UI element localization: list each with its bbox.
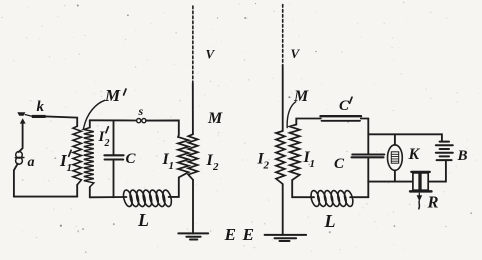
wire primary bottom [14,196,77,198]
svg-text:1: 1 [310,158,316,170]
alternator a [15,152,24,165]
wire receiver right side upper [367,119,369,155]
wire I1 bottom stub (receiver) [291,180,293,197]
detector K [388,145,403,171]
svg-text:M: M [207,110,223,127]
wire antenna down lead (receiver) [282,65,284,131]
wire receiver top right [361,118,369,120]
wire receiver right side lower [367,158,369,197]
svg-text:E: E [242,225,254,244]
wire to earth (receiver) [282,184,284,235]
svg-text:1: 1 [67,162,73,174]
wire I'2 bottom stub [89,187,91,197]
svg-text:2: 2 [212,161,219,173]
wire primary top [46,116,78,126]
svg-text:C: C [339,98,350,114]
inductor I'1 (primary winding of M') [73,126,81,185]
svg-text:1: 1 [169,160,175,172]
antenna V (transmitter, dashed) [192,6,194,83]
wire capacitor C top lead [113,120,115,154]
leader line for M' [83,100,104,129]
capacitor C (receiver) [352,153,384,155]
inductor I1 (primary of oscillation transformer M) [178,135,189,177]
wire detector branch bottom [368,181,412,183]
leader line for M (receiver) [287,102,296,128]
key k [17,112,45,123]
wire R to battery [428,160,446,182]
wire secondary top (left of spark gap) [90,119,137,121]
earth ground E (transmitter) [178,233,208,239]
svg-text:2: 2 [263,160,270,172]
inductor L (transmitter) [122,189,173,207]
wire primary left [19,122,23,153]
wire capacitor C bottom lead [113,160,115,197]
wire I'2 top stub [89,120,91,127]
svg-text:C: C [126,151,137,167]
wire primary left lower [14,164,18,197]
svg-text:B: B [457,148,468,164]
inductor I2 (receiver antenna winding) [276,131,285,184]
inductor I2 (secondary of M, in antenna) [188,134,197,180]
spark gap s [137,119,146,123]
wire secondary top (right of spark gap) [146,120,179,135]
earth ground E (receiver) [265,235,307,241]
inductor I1 (receiver secondary winding) [290,125,300,181]
svg-text:k: k [37,99,45,115]
wire antenna down lead [192,83,194,134]
svg-text:a: a [28,155,35,170]
antenna V (receiver, dashed) [282,5,284,66]
svg-text:V: V [206,47,216,62]
wire I'1 bottom stub [76,185,78,197]
capacitor C (transmitter) [104,154,123,156]
wire L to I1 [169,177,179,197]
inductor L (receiver) [310,190,355,208]
wire detector branch top [368,134,442,141]
svg-text:M: M [293,88,309,105]
wire receiver bottom right [350,196,368,198]
wire K bottom lead [394,170,396,181]
wire to earth (transmitter) [192,180,194,234]
inductor I'2 (secondary winding of M') [84,128,94,188]
svg-text:C: C [334,156,345,172]
svg-text:E: E [224,225,236,244]
arrow pointer under R [417,195,423,201]
svg-text:M: M [104,86,121,105]
svg-text:L: L [324,211,336,231]
svg-text:R: R [427,193,439,212]
svg-text:s: s [138,104,144,118]
svg-text:2: 2 [104,138,110,149]
svg-text:K: K [408,146,421,163]
svg-text:L: L [137,210,149,230]
wire receiver top [296,119,321,125]
wire receiver bottom left [292,196,314,198]
wire K top lead [394,134,396,145]
capacitor C' [321,115,362,117]
wire secondary bottom [90,196,127,198]
battery B [436,142,453,161]
telephone R [410,172,431,192]
svg-text:V: V [291,46,301,61]
